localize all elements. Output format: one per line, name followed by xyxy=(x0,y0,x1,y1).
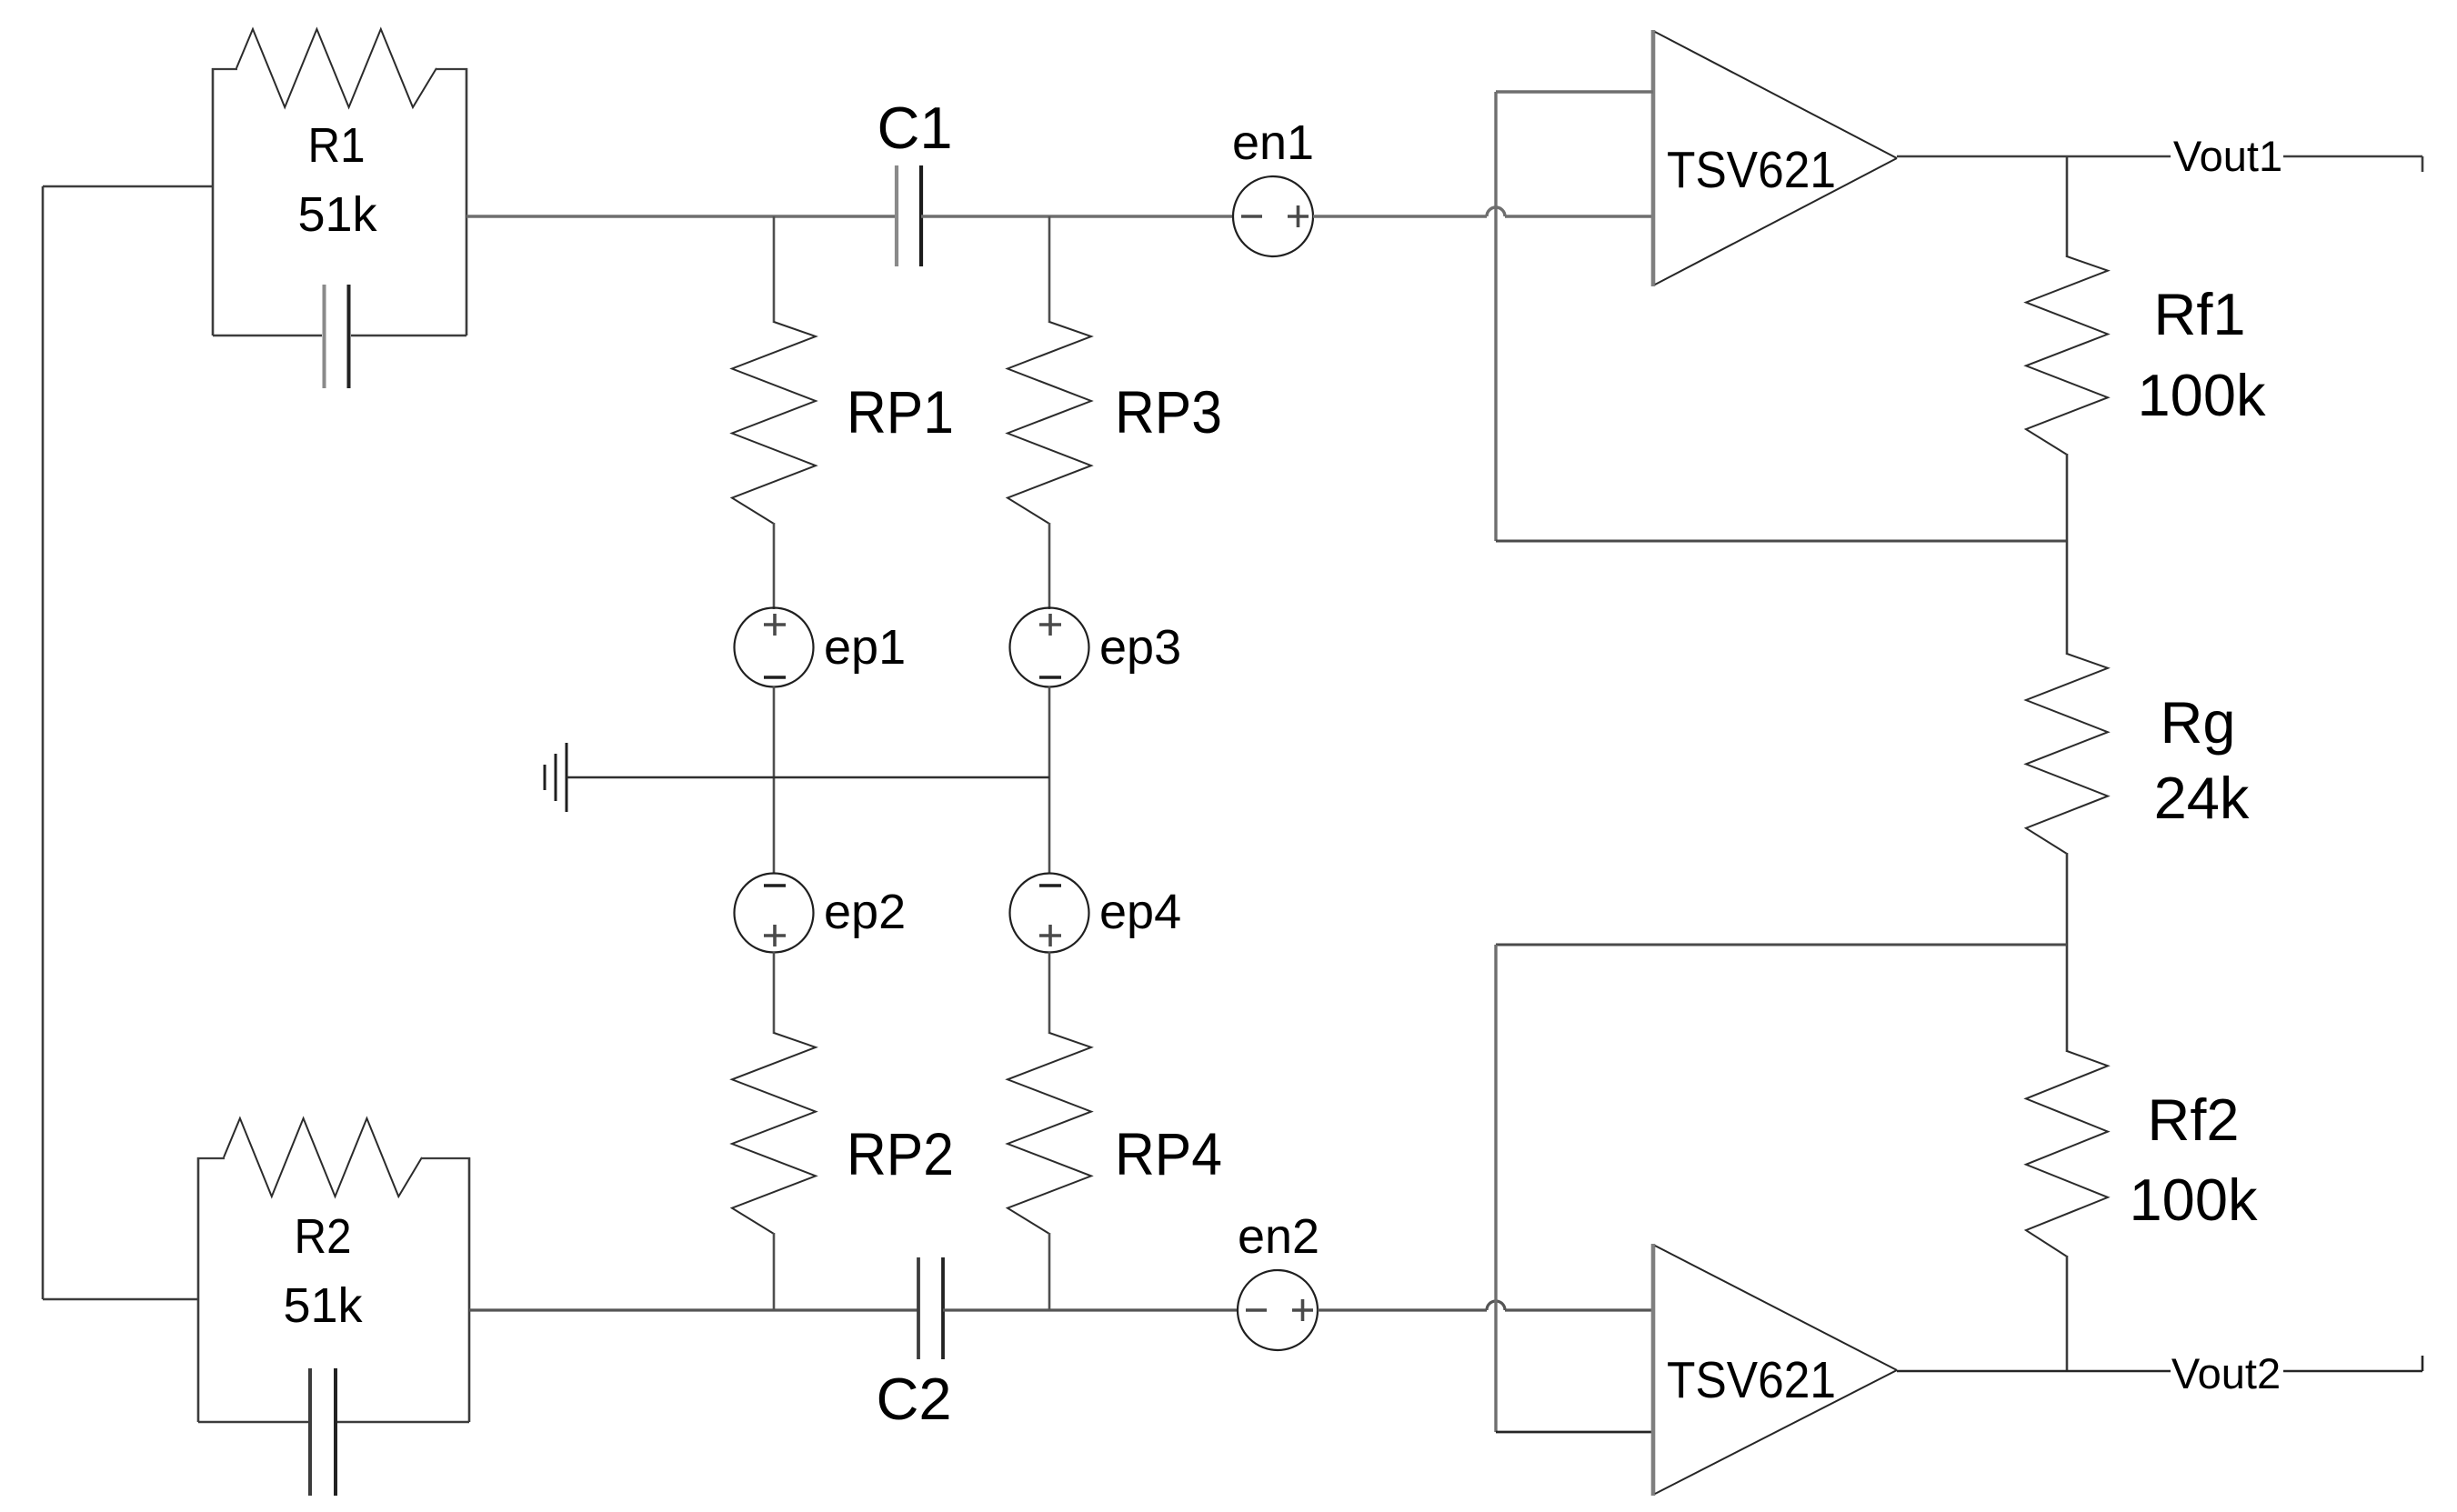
wire from C2 to noise source en2 xyxy=(943,1308,1239,1311)
svg-text:RP1: RP1 xyxy=(847,378,954,446)
svg-text:ep2: ep2 xyxy=(824,885,906,939)
op-amp U2 output wire xyxy=(1897,1370,2171,1373)
resistor RP3 zigzag xyxy=(1008,322,1091,524)
R2 box right edge xyxy=(468,1157,471,1422)
wire from R2 to capacitor C2 xyxy=(469,1308,918,1311)
capacitor C1 left plate xyxy=(895,165,898,266)
wire ep4 to RP4 xyxy=(1048,952,1051,1034)
capacitor C2 right plate xyxy=(941,1257,945,1359)
svg-text:100k: 100k xyxy=(2138,362,2266,428)
wire en2 to op-amp U2 with hop over feedback xyxy=(1318,1308,1487,1311)
op-amp U1 top slant xyxy=(1655,32,1897,158)
wire RP3 to ep3 xyxy=(1048,523,1051,609)
resistor RP4 zigzag xyxy=(1008,1033,1091,1234)
ep1 minus mark xyxy=(764,676,786,679)
resistor Rf2 zigzag xyxy=(2026,1051,2108,1257)
noise source en2 circle xyxy=(1238,1270,1318,1350)
svg-text:Rf1: Rf1 xyxy=(2153,281,2245,347)
terminal tick Vout1 xyxy=(2422,156,2424,172)
ground wire to RP columns xyxy=(567,776,1049,779)
wire left vertical column xyxy=(42,186,45,1299)
wire Vout1 to terminal xyxy=(2283,155,2422,158)
wire RP4 to bottom wire xyxy=(1048,1233,1051,1310)
capacitor plate (dark) inside R1 box xyxy=(347,285,351,388)
R1 box bottom edge right segment xyxy=(351,335,466,337)
svg-text:51k: 51k xyxy=(297,187,377,242)
ep2 minus mark xyxy=(764,884,786,887)
svg-text:ep3: ep3 xyxy=(1099,620,1181,675)
R1 box right edge xyxy=(466,68,468,335)
capacitor plate (gray) inside R1 box xyxy=(323,285,326,388)
op-amp U2 bottom slant xyxy=(1655,1370,1897,1494)
svg-text:R2: R2 xyxy=(295,1209,352,1264)
R1 box top edge right stub xyxy=(436,68,467,70)
svg-text:ep4: ep4 xyxy=(1099,885,1181,939)
wire Rg to Rf2 xyxy=(2066,853,2069,1052)
svg-text:51k: 51k xyxy=(283,1278,363,1333)
svg-text:RP3: RP3 xyxy=(1115,378,1222,446)
svg-text:ep1: ep1 xyxy=(824,620,906,675)
ep3 minus mark xyxy=(1039,676,1061,679)
op-amp U1 output wire xyxy=(1897,155,2171,158)
op-amp U1 inverting input feedback wire xyxy=(1496,90,1653,93)
en1 minus mark xyxy=(1241,215,1262,218)
wire R1 left entry xyxy=(43,185,213,188)
svg-text:RP2: RP2 xyxy=(847,1120,954,1187)
voltage source ep4 circle xyxy=(1010,874,1089,953)
wire Rf1 to Rg xyxy=(2066,454,2069,655)
R2 box top edge left stub xyxy=(197,1157,225,1159)
op-amp U2 inverting input feedback wire xyxy=(1496,1431,1653,1434)
ep4 plus mark xyxy=(1039,934,1061,937)
ep1 plus mark xyxy=(764,623,786,626)
en1 plus mark xyxy=(1288,215,1309,218)
R2 box bottom edge right segment xyxy=(337,1421,469,1424)
ep3 plus mark xyxy=(1039,623,1061,626)
svg-text:C1: C1 xyxy=(877,95,952,161)
wire from C1 to noise source en1 xyxy=(921,215,1234,217)
svg-text:en2: en2 xyxy=(1238,1209,1319,1264)
capacitor plate left inside R2 box xyxy=(308,1368,312,1496)
ep2 plus mark xyxy=(764,934,786,937)
op-amp U2 top slant xyxy=(1655,1246,1897,1370)
ep4 minus mark xyxy=(1039,884,1061,887)
noise source en1 circle xyxy=(1233,176,1313,256)
svg-text:TSV621: TSV621 xyxy=(1667,1351,1836,1409)
R1 box top edge left stub xyxy=(212,68,237,70)
R2 box top edge right stub xyxy=(421,1157,470,1159)
op-amp U1 left edge xyxy=(1651,30,1656,286)
voltage source ep3 circle xyxy=(1010,608,1089,687)
feedback vertical wire U2 xyxy=(1494,945,1497,1432)
svg-text:24k: 24k xyxy=(2154,765,2250,831)
wire en1 to op-amp U1 with hop over feedback xyxy=(1313,215,1487,217)
wire op-amp U1 output down to Rf1 xyxy=(2066,156,2069,257)
resistor R2 51k parallel-RC box left edge xyxy=(197,1157,200,1422)
capacitor C1 right plate xyxy=(919,165,923,266)
op-amp U2 left edge xyxy=(1651,1244,1656,1496)
wire RP2 to bottom wire xyxy=(773,1233,776,1310)
wire ep1 to ep2 through ground node xyxy=(773,686,776,874)
wire ep2 to RP2 xyxy=(773,952,776,1034)
en2 minus mark xyxy=(1246,1308,1267,1312)
resistor R2 zigzag xyxy=(224,1118,422,1197)
resistor RP2 zigzag xyxy=(732,1033,816,1234)
wire from R1 to capacitor C1 xyxy=(466,215,897,217)
capacitor C2 left plate xyxy=(917,1257,920,1359)
feedback top wire U2 from Rg/Rf2 node xyxy=(1496,944,2067,946)
svg-text:RP4: RP4 xyxy=(1115,1120,1222,1187)
ground symbol bars xyxy=(566,743,568,812)
resistor Rf1 zigzag xyxy=(2026,256,2108,455)
voltage source ep1 circle xyxy=(735,608,814,687)
node junction top wire / RP3 xyxy=(1048,216,1051,323)
svg-text:Rg: Rg xyxy=(2160,689,2235,756)
svg-text:en1: en1 xyxy=(1232,115,1314,170)
voltage source ep2 circle xyxy=(735,874,814,953)
svg-text:Vout1: Vout1 xyxy=(2173,132,2282,180)
wire R2 left entry xyxy=(43,1298,198,1301)
svg-text:100k: 100k xyxy=(2130,1167,2258,1233)
R2 box bottom edge left segment xyxy=(198,1421,308,1424)
op-amp U1 bottom slant xyxy=(1655,158,1897,285)
R1 box bottom edge left segment xyxy=(213,335,322,337)
resistor R1 zigzag xyxy=(236,29,436,107)
wire ep3 to ep4 through ground node xyxy=(1048,686,1051,874)
feedback bottom wire U1 to Rf1/Rg node xyxy=(1496,540,2067,543)
resistor Rg zigzag xyxy=(2026,654,2108,854)
node junction top wire / RP1 xyxy=(773,216,776,323)
en2 plus mark xyxy=(1292,1308,1313,1312)
svg-text:C2: C2 xyxy=(876,1366,951,1432)
capacitor plate right inside R2 box xyxy=(334,1368,337,1496)
svg-text:TSV621: TSV621 xyxy=(1667,141,1836,199)
svg-text:R1: R1 xyxy=(308,118,366,173)
wire Rf2 down to op-amp U2 output xyxy=(2066,1256,2069,1371)
terminal tick Vout2 xyxy=(2422,1356,2424,1371)
svg-text:Rf2: Rf2 xyxy=(2147,1086,2239,1153)
resistor R1 51k parallel-RC box left edge xyxy=(212,68,215,335)
svg-text:Vout2: Vout2 xyxy=(2171,1349,2281,1397)
wire RP1 to ep1 xyxy=(773,523,776,609)
resistor RP1 zigzag xyxy=(732,322,816,524)
feedback vertical wire U1 xyxy=(1494,92,1497,541)
wire Vout2 to terminal xyxy=(2283,1370,2422,1373)
